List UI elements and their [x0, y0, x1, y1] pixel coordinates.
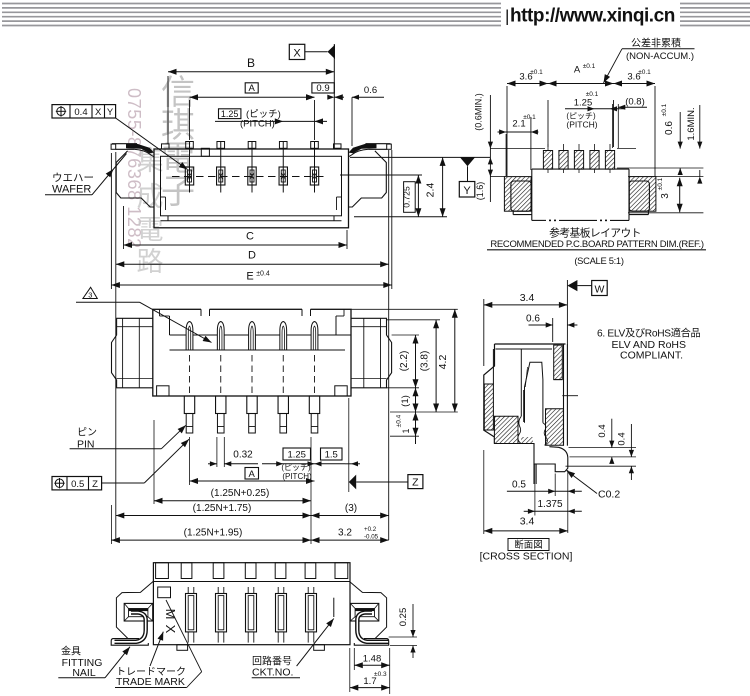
svg-text:B: B: [247, 56, 255, 70]
svg-text:(1.25N+1.95): (1.25N+1.95): [184, 528, 243, 539]
plan dim 1 pm 0.4: [390, 435, 419, 437]
svg-text:(2.2): (2.2): [399, 351, 410, 372]
svg-text:X: X: [163, 625, 178, 634]
svg-text:Y: Y: [107, 107, 114, 118]
front view polarization box: [201, 148, 209, 156]
dimension E: [110, 153, 112, 289]
front view right wing: [349, 151, 387, 207]
section right lower hatch: [546, 409, 564, 446]
plan dim 1.25N+0.25: [153, 420, 155, 504]
trade mark leaders: [150, 632, 163, 666]
svg-text:http://www.xinqi.cn: http://www.xinqi.cn: [510, 6, 675, 27]
pcb outline bottom dash-dot: [532, 219, 546, 221]
plan view left wing: [112, 318, 153, 388]
section dim 0.4 first: [569, 447, 637, 449]
svg-text:1: 1: [401, 428, 411, 433]
svg-text:3: 3: [660, 193, 671, 199]
bottom view ckt mark: [333, 598, 335, 617]
svg-text:(0.6MIN.): (0.6MIN.): [474, 93, 484, 131]
plan dim 3.2: [311, 539, 389, 541]
svg-text:(3.8): (3.8): [420, 351, 431, 372]
bottom view right nail pocket: [349, 581, 386, 638]
dimension C: [123, 206, 125, 249]
section tail below: [533, 464, 535, 484]
svg-text:NAIL: NAIL: [72, 667, 96, 679]
bottom view left nail frame: [124, 603, 153, 621]
svg-text:A: A: [249, 83, 256, 94]
section dim 3.4 bottom: [483, 450, 485, 534]
plan view bottom notches: [157, 386, 169, 396]
svg-text:3.2: 3.2: [338, 528, 352, 539]
front view pin contacts: [185, 167, 193, 185]
plan dim 3.8: [387, 319, 441, 321]
plan view body outline: [153, 309, 351, 396]
bottom view comb cutouts: [156, 563, 169, 579]
front view right fitting nail foot: [387, 144, 392, 149]
datum flag Z: [349, 475, 356, 490]
front view inner cavity: [161, 156, 342, 216]
svg-text:WAFER: WAFER: [52, 184, 91, 196]
svg-text:1.375: 1.375: [537, 499, 562, 510]
svg-text:RECOMMENDED P.C.BOARD PATTERN: RECOMMENDED P.C.BOARD PATTERN DIM.(REF.): [490, 239, 704, 250]
dimension 2.4: [442, 157, 444, 216]
svg-text:1.25: 1.25: [574, 98, 593, 109]
svg-text:(1): (1): [400, 395, 411, 407]
svg-text:0.5: 0.5: [512, 480, 526, 491]
bottom dim 1.7: [349, 648, 351, 692]
svg-text:(1.25N+0.25): (1.25N+0.25): [211, 488, 270, 499]
bottom dim 0.25: [389, 636, 417, 638]
plan dim 0.32: [216, 437, 218, 467]
pcb right nail pad: [629, 177, 656, 212]
seating plane extension: [350, 156, 490, 158]
svg-text:断面図: 断面図: [514, 539, 543, 551]
svg-text:W: W: [594, 283, 604, 295]
svg-text:(PITCH): (PITCH): [240, 118, 275, 129]
svg-text:E: E: [246, 271, 253, 283]
front view body outline: [154, 149, 349, 228]
svg-text:M: M: [163, 609, 178, 620]
svg-text:1.48: 1.48: [363, 654, 382, 665]
bottom view bumps: [177, 645, 188, 651]
svg-text:ピン: ピン: [77, 427, 97, 439]
svg-text:0.6: 0.6: [364, 85, 377, 96]
front view left wing: [116, 151, 154, 207]
bottom view left nail metal strip: [115, 613, 146, 642]
pin centerline extension right: [340, 174, 422, 176]
svg-text:公差非累積: 公差非累積: [631, 37, 681, 50]
pcb pad centerlines: [547, 144, 549, 173]
svg-text:0.32: 0.32: [233, 450, 253, 461]
triangle note 3: [83, 287, 97, 298]
svg-text:A: A: [574, 65, 581, 76]
ckt leader: [297, 619, 334, 667]
svg-text:[CROSS SECTION]: [CROSS SECTION]: [480, 551, 573, 563]
svg-text:+0.2: +0.2: [364, 526, 377, 533]
section outline: [495, 343, 566, 345]
front view top-right step: [334, 144, 342, 149]
section foot outline: [494, 444, 567, 472]
section dim 0.4 second: [566, 465, 637, 467]
feature control frame 0.4 X Y: [52, 105, 116, 118]
dimension 0.725 boxed: [417, 175, 419, 217]
pcb dim 3.6 left: [506, 86, 508, 176]
front view cavity side reliefs: [165, 197, 167, 210]
svg-text:0.4: 0.4: [617, 432, 628, 445]
svg-text:X: X: [293, 48, 301, 60]
svg-text:0.25: 0.25: [398, 608, 409, 627]
svg-text:(ピッチ): (ピッチ): [281, 463, 311, 472]
bottom view left foot: [111, 639, 148, 646]
section caption: [508, 539, 549, 551]
triangle leader: [76, 301, 140, 303]
svg-text:±0.4: ±0.4: [396, 414, 403, 427]
pcb outline: [532, 168, 629, 170]
svg-text:0.9: 0.9: [316, 83, 329, 94]
svg-text:(1.6): (1.6): [475, 182, 485, 201]
svg-text:4.2: 4.2: [437, 355, 449, 370]
plan view contacts: [186, 322, 193, 351]
front view pin centerline: [172, 176, 328, 178]
section dim 3.4 top: [483, 299, 485, 366]
plan dim 1: [415, 388, 417, 412]
bottom view right foot: [354, 639, 388, 646]
svg-text:1.25: 1.25: [287, 450, 306, 461]
svg-text:路: 路: [137, 247, 164, 277]
svg-text:±0.1: ±0.1: [661, 103, 668, 116]
svg-text:参考基板レイアウト: 参考基板レイアウト: [549, 226, 641, 240]
svg-text:3: 3: [88, 291, 92, 300]
svg-text:0.725: 0.725: [402, 186, 412, 208]
bottom view right nail metal strip: [357, 613, 388, 642]
pcb pin pads: [543, 151, 552, 170]
svg-text:Y: Y: [463, 185, 471, 197]
dimension B: [167, 76, 169, 144]
svg-text:±0.1: ±0.1: [586, 91, 599, 98]
section contact bumps: [518, 416, 521, 443]
svg-text:Z: Z: [412, 477, 419, 489]
svg-text:±0.3: ±0.3: [374, 671, 387, 678]
svg-text:6. ELV及びRoHS適合品: 6. ELV及びRoHS適合品: [597, 327, 701, 340]
top banner stripes right: [680, 3, 750, 5]
plan view top slots: [201, 309, 210, 311]
top banner stripes left: [2, 3, 501, 5]
svg-text:Z: Z: [92, 479, 98, 490]
dimension D: [115, 152, 117, 540]
leader 0.5Z to pin: [102, 482, 145, 484]
svg-text:A: A: [249, 469, 256, 480]
pcb pad top extension: [490, 148, 545, 150]
svg-text:(1.25N+1.75): (1.25N+1.75): [193, 503, 252, 514]
svg-text:0.6: 0.6: [664, 121, 675, 135]
svg-text:3.4: 3.4: [520, 292, 535, 304]
plan dim A boxed: [245, 468, 259, 480]
wafer leader: [92, 154, 127, 195]
svg-text:(PITCH): (PITCH): [566, 120, 597, 130]
datum flag W: [567, 280, 577, 291]
plan view pin tails: [184, 396, 194, 414]
plan view cavity walls: [170, 334, 231, 336]
bottom view right nail frame: [350, 603, 379, 621]
svg-text:D: D: [248, 250, 256, 262]
datum flag Y: [460, 157, 475, 166]
section cavity left wall: [492, 349, 494, 384]
bottom view body: [153, 563, 350, 645]
plan dim 3: [311, 515, 389, 517]
plan view right wing: [351, 318, 392, 388]
bottom view left nail pocket: [116, 581, 153, 638]
svg-text:±0.1: ±0.1: [638, 69, 651, 76]
plan view contact base line: [170, 349, 346, 351]
front view top-left step: [162, 144, 170, 149]
plan view pin dashed centerlines: [189, 355, 191, 395]
dimension 0.9 boxed: [312, 83, 334, 93]
svg-text:X: X: [95, 107, 102, 118]
svg-text:ウエハー: ウエハー: [52, 172, 94, 184]
plan dim 4.2: [351, 308, 458, 310]
pcb dim 0.8: [611, 104, 613, 148]
pcb dim 3.6 right: [654, 86, 656, 176]
section dim 0.5: [554, 474, 556, 497]
svg-text:±0.1: ±0.1: [657, 177, 664, 190]
svg-text:±0.4: ±0.4: [256, 271, 270, 278]
svg-text:TRADE MARK: TRADE MARK: [116, 676, 185, 688]
section cavity tongue: [525, 362, 543, 422]
section bottom block hatch: [494, 416, 518, 443]
svg-text:1.6MIN.: 1.6MIN.: [686, 107, 697, 140]
plan dim 2.2: [392, 334, 419, 336]
feature control frame 0.5 Z: [52, 477, 102, 490]
section mid mark right: [562, 395, 578, 397]
svg-text:COMPLIANT.: COMPLIANT.: [620, 350, 683, 362]
svg-text:CKT.NO.: CKT.NO.: [252, 667, 293, 679]
svg-text:C0.2: C0.2: [598, 489, 620, 501]
plan dim 1.25 boxed: [283, 448, 311, 460]
svg-text:(NON-ACCUM.): (NON-ACCUM.): [626, 51, 694, 62]
section left wall hatch: [484, 384, 493, 430]
front view base lines: [161, 220, 342, 222]
datum X extension line: [333, 44, 335, 149]
svg-text:±0.1: ±0.1: [530, 69, 543, 76]
svg-text:(SCALE 5:1): (SCALE 5:1): [574, 255, 624, 266]
svg-text:0.4: 0.4: [597, 424, 608, 437]
svg-text:0.6: 0.6: [526, 314, 540, 325]
svg-text:|: |: [505, 7, 509, 26]
svg-text:-0.05: -0.05: [364, 534, 379, 541]
svg-text:電: 電: [137, 215, 164, 245]
dimension A boxed: [189, 100, 191, 140]
svg-text:1.5: 1.5: [325, 450, 338, 461]
svg-text:3.4: 3.4: [520, 516, 535, 528]
section right wall: [554, 345, 563, 380]
bottom view mx mark box: [158, 587, 171, 598]
non-accum leader: [604, 49, 623, 83]
bottom dim 1.48: [353, 648, 355, 670]
front view pin tabs: [186, 142, 194, 149]
svg-text:±0.1: ±0.1: [523, 114, 536, 121]
leader to pin 1: [116, 118, 188, 170]
svg-text:(0.8): (0.8): [625, 97, 645, 108]
front view left fitting nail foot: [111, 144, 116, 149]
plan dim 1.5 boxed: [321, 448, 343, 460]
svg-text:金具: 金具: [61, 645, 81, 658]
bottom view pins: [186, 594, 197, 632]
svg-text:0.5: 0.5: [71, 479, 84, 490]
pcb dim A: [613, 100, 615, 147]
plan dim 1.25N+1.95: [111, 539, 311, 541]
plan dim 1.25N+1.75: [116, 515, 311, 517]
svg-text:(3): (3): [345, 503, 357, 514]
section dim 1.375: [534, 464, 536, 516]
front view pin wires: [189, 142, 191, 193]
pcb left nail pad: [504, 177, 531, 212]
svg-text:1.25: 1.25: [221, 109, 239, 119]
svg-text:±0.1: ±0.1: [583, 63, 596, 70]
dimension 1.25 pitch boxed: [219, 109, 241, 119]
svg-text:0.4: 0.4: [74, 107, 87, 118]
svg-text:C: C: [246, 231, 254, 243]
svg-text:2.4: 2.4: [425, 183, 437, 198]
dimension 0.6: [351, 97, 353, 146]
datum flag X: [289, 44, 305, 59]
